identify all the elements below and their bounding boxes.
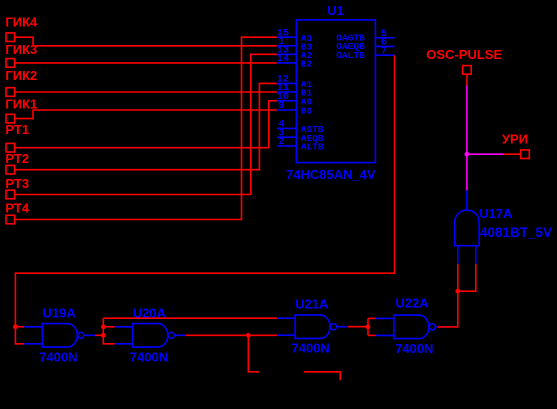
wire GIK1 to U1 pin9 B0 [15,110,277,119]
U1 pin 1 stub [277,45,296,47]
U19A output bubble [78,332,84,338]
wire RT3 to U1 pin13 A2 [15,54,277,194]
port ГИК4 [6,33,15,42]
wire RT1 to U1 pin10 A0 [15,101,277,148]
port РТ1 [6,143,15,152]
U22A output bubble [429,324,435,330]
port ГИК3 [6,59,15,68]
U21A output stub [337,326,349,328]
port ГИК1 [6,114,15,123]
wire RT2 to U1 pin12 A1 [15,83,277,169]
U20A output bubble [168,332,174,338]
wire U21A output to U22A tie [348,326,368,328]
svg-text:B2: B2 [301,59,313,70]
wire U20A output to U21A input2 [186,334,277,336]
svg-text:РТ2: РТ2 [5,151,29,166]
port РТ2 [6,165,15,174]
U1 pin 3 stub [277,136,296,138]
svg-text:14: 14 [277,53,290,65]
U21A input stubs [277,318,295,335]
svg-text:7400N: 7400N [130,350,168,365]
junction U17A inputs [455,289,460,294]
svg-text:74HC85AN_4V: 74HC85AN_4V [286,167,376,182]
svg-text:U22A: U22A [395,296,429,311]
svg-text:7400N: 7400N [292,341,330,356]
svg-text:OSC-PULSE: OSC-PULSE [426,47,502,62]
wire U22A input tie vertical [367,318,369,335]
U1 pin 2 stub [277,145,296,147]
U20A output stub [174,334,186,336]
U1 pin 13 stub [277,53,296,55]
svg-text:ГИК4: ГИК4 [5,14,38,29]
svg-text:7: 7 [381,45,387,57]
wire GIK4 to U1 pin1 B3 [15,37,277,46]
U1 pin 14 stub [277,62,296,64]
wire U1 pin7 OALTB to U19A inputs [15,55,394,344]
svg-text:2: 2 [278,136,284,148]
svg-text:7400N: 7400N [39,350,77,365]
svg-text:OALTB: OALTB [336,50,365,61]
wire OSC-PULSE red part [466,74,468,85]
U17A input stubs [458,246,476,264]
wire stub drop right [304,372,340,381]
svg-text:7400N: 7400N [395,341,433,356]
wire URI red part [504,153,521,155]
U1 pin 10 stub [277,100,296,102]
wire U17A input1 [457,264,459,292]
port URI [521,150,530,159]
svg-text:РТ3: РТ3 [5,176,29,191]
port ГИК2 [6,88,15,97]
U22A output stub [435,326,447,328]
wire U19A output to U20A tie [95,334,103,336]
junction drop branch [246,333,251,338]
svg-text:B0: B0 [301,106,313,117]
U1 pin 6 stub [375,45,394,47]
transistor-gate U20A 7400N NAND body [133,324,168,348]
transistor-gate U17A 4081BT_5V AND body [455,210,479,246]
svg-text:U19A: U19A [43,305,77,320]
port РТ4 [6,215,15,224]
svg-text:9: 9 [278,100,284,112]
transistor-gate U19A 7400N NAND body [42,324,77,348]
U19A input stubs [24,327,42,344]
svg-text:УРИ: УРИ [502,132,528,147]
wire URI magenta part [467,153,504,155]
transistor-gate U21A 7400N NAND body [295,315,330,339]
U19A output stub [84,334,96,336]
junction URI branch [465,152,470,157]
U1 pin 11 stub [277,91,296,93]
U1 pin 9 stub [277,109,296,111]
svg-text:U21A: U21A [295,297,329,312]
port РТ3 [6,190,15,199]
U21A output bubble [330,324,336,330]
U1 pin 7 stub [375,54,394,56]
U1 pin 4 stub [277,127,296,129]
junction U22A tie [366,324,371,329]
svg-text:ГИК2: ГИК2 [5,68,37,83]
junction U20A input1 [101,324,106,329]
wire GIK2 to U1 pin11 B1 [15,91,277,93]
svg-text:ГИК1: ГИК1 [5,96,37,111]
wire feedback U20A tie to U21A input1 [103,317,277,319]
wire U19A input1 branch [15,326,24,328]
svg-text:ALTB: ALTB [301,142,324,153]
wire U20A input tie vertical [103,318,115,344]
junction U19A out merge [101,333,106,338]
U1 pin 5 stub [375,37,394,39]
svg-text:РТ4: РТ4 [5,201,29,216]
svg-text:U1: U1 [327,3,344,18]
wire U22A output up to U17A [438,291,458,327]
wire U22A input1 branch [368,317,376,319]
wire stub drop left [248,335,259,372]
wire RT4 to U1 pin15 A3 [15,37,277,219]
transistor-gate U22A 7400N NAND body [394,315,429,339]
junction U19A input tie [13,324,18,329]
port OSC-PULSE [463,66,472,75]
U20A input stubs [115,327,133,344]
svg-text:U17A: U17A [479,206,513,221]
svg-text:РТ1: РТ1 [5,122,29,137]
wire GIK3 to U1 pin14 B2 [15,62,277,64]
svg-text:4081BT_5V: 4081BT_5V [480,225,552,240]
U1 pin 12 stub [277,82,296,84]
wire U20A input1 branch [103,326,115,328]
U22A input stubs [376,318,394,335]
U1 pin 15 stub [277,36,296,38]
wire U22A input2 branch [368,334,376,336]
wire U17A input2 [458,264,476,292]
U17A output stub [466,190,468,210]
wire OSC-PULSE magenta net [466,85,468,190]
op-amp U1 74HC85AN_4V body [296,20,375,163]
